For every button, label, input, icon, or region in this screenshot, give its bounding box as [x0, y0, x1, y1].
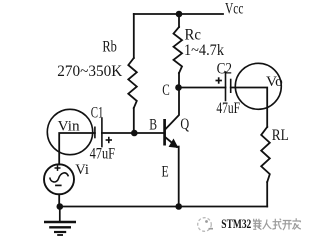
- source Vi circle: [44, 164, 74, 194]
- wire Rb to node B: [133, 108, 135, 133]
- capacitor C1 plus sign: [106, 137, 112, 143]
- svg-text:Vo: Vo: [266, 74, 283, 90]
- wire bottom rail: [60, 206, 267, 208]
- wire emitter lead: [166, 138, 177, 147]
- resistor RL: [261, 127, 270, 182]
- node dot top rail / Rc: [176, 11, 183, 18]
- svg-text:STM32: STM32: [221, 216, 251, 231]
- svg-text:Vin: Vin: [58, 119, 80, 135]
- svg-text:Rc: Rc: [185, 27, 202, 44]
- wire collector lead: [166, 88, 179, 130]
- wire C1 to base: [102, 132, 164, 134]
- svg-text:47uF: 47uF: [216, 100, 240, 117]
- wire node C to C2: [179, 87, 226, 89]
- svg-text:47uF: 47uF: [90, 146, 115, 163]
- transistor Q1 emitter arrow: [169, 140, 177, 148]
- wire Rc to node C: [178, 73, 180, 88]
- capacitor C2 plates: [226, 72, 231, 101]
- resistor Rb: [128, 58, 137, 108]
- watermark text CJK 嵌入式开发 (drawn strokes): [253, 218, 301, 230]
- wire Rc branch upper: [178, 14, 180, 27]
- svg-text:Vcc: Vcc: [225, 1, 244, 18]
- source Vi sine wave: [50, 173, 69, 182]
- wire top rail Vcc: [134, 13, 223, 15]
- ground: [44, 207, 76, 236]
- node dot Vi / ground: [57, 203, 64, 210]
- wire RL to bottom rail: [266, 182, 268, 207]
- wire Vi to bottom rail: [58, 194, 60, 206]
- node C dot: [175, 84, 182, 91]
- glyph 开: [282, 221, 292, 231]
- svg-text:Vi: Vi: [75, 162, 89, 178]
- svg-text:C1: C1: [91, 105, 104, 122]
- resistor Rc: [174, 27, 183, 73]
- wire emitter to bottom rail: [177, 147, 179, 207]
- svg-text:1~4.7k: 1~4.7k: [184, 42, 224, 59]
- transistor Q1 base bar: [163, 119, 166, 146]
- node B dot: [131, 130, 138, 137]
- capacitor C1 plates: [95, 119, 102, 147]
- node E dot bottom rail: [175, 203, 182, 210]
- source Vi plus sign: [55, 165, 61, 171]
- source Vi minus sign: [55, 184, 62, 186]
- wire left branch upper (to Rb): [133, 14, 135, 58]
- svg-text:E: E: [162, 164, 169, 181]
- glyph 发: [292, 218, 301, 229]
- glyph 嵌: [253, 219, 262, 230]
- svg-text:RL: RL: [272, 127, 289, 144]
- wire input corner to C1: [59, 133, 95, 165]
- probe circle Vo: [235, 63, 281, 109]
- glyph 发 second stroke accent: [299, 221, 302, 222]
- glyph 式: [272, 219, 281, 230]
- svg-text:Q: Q: [180, 116, 189, 133]
- glyph 入: [263, 220, 272, 230]
- wire C2 to output corner: [231, 88, 268, 128]
- svg-text:B: B: [149, 117, 157, 134]
- svg-text:Rb: Rb: [102, 39, 117, 56]
- svg-text:270~350K: 270~350K: [57, 63, 122, 80]
- svg-text:C: C: [162, 82, 170, 99]
- watermark logo icon: [198, 218, 213, 232]
- capacitor C2 plus sign: [216, 77, 222, 83]
- svg-text:C2: C2: [217, 61, 232, 78]
- probe circle Vin: [47, 109, 92, 154]
